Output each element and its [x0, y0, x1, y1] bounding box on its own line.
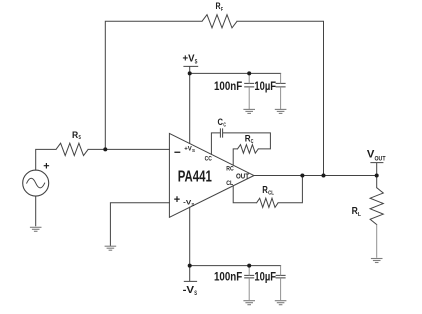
svg-text:C: C: [251, 139, 254, 145]
svg-text:-V: -V: [183, 284, 195, 296]
svg-text:S: S: [192, 148, 195, 153]
svg-text:CL: CL: [226, 180, 233, 187]
svg-text:C: C: [223, 123, 226, 129]
svg-text:L: L: [358, 212, 361, 218]
svg-text:100nF: 100nF: [214, 272, 242, 284]
svg-text:RC: RC: [226, 165, 234, 172]
svg-text:C: C: [218, 117, 224, 128]
svg-text:+V: +V: [183, 52, 195, 64]
svg-text:10µF: 10µF: [254, 81, 276, 93]
svg-text:S: S: [194, 291, 197, 297]
svg-text:CC: CC: [205, 156, 212, 163]
svg-text:CL: CL: [268, 191, 274, 197]
svg-text:100nF: 100nF: [214, 81, 242, 93]
svg-text:R: R: [72, 130, 78, 141]
svg-text:PA441: PA441: [178, 169, 212, 186]
svg-text:10µF: 10µF: [254, 272, 276, 284]
svg-text:OUT: OUT: [375, 155, 386, 162]
svg-text:S: S: [191, 202, 194, 207]
svg-text:OUT: OUT: [236, 173, 250, 180]
svg-text:S: S: [79, 135, 82, 141]
svg-text:S: S: [195, 60, 198, 66]
